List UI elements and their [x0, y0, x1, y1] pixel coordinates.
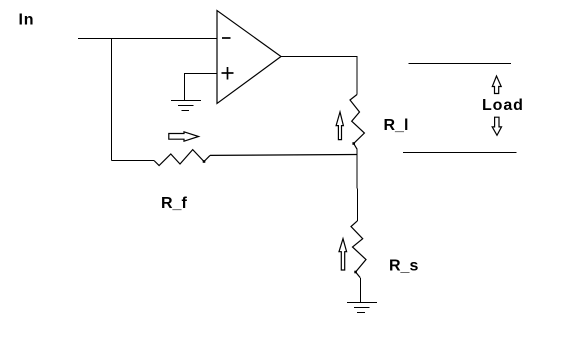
resistor R_f [154, 150, 210, 166]
ground (bottom) [347, 303, 377, 313]
load arrow up [492, 76, 501, 94]
op-amp U1 [217, 11, 281, 104]
ground (op-amp + input) [171, 101, 201, 111]
wire feedback left (R_f to tap) [112, 160, 155, 162]
load arrow down [492, 117, 501, 135]
svg-text:R_l: R_l [384, 117, 409, 134]
wire feedback tap (vertical from input wire) [111, 39, 113, 161]
wire feedback (node to R_f) [210, 154, 357, 157]
junction dot at R_l bottom [352, 142, 355, 145]
load bottom terminal [403, 152, 517, 154]
svg-text:Load: Load [482, 97, 524, 114]
resistor R_l [350, 95, 364, 150]
current arrow (R_s, up) [339, 239, 347, 270]
svg-text:R_f: R_f [161, 195, 187, 212]
wire non-inverting input to ground [185, 74, 218, 101]
junction dot at R_s bottom [354, 271, 357, 274]
svg-text:R_s: R_s [389, 258, 418, 275]
wire output [281, 57, 357, 95]
load top terminal [409, 63, 512, 65]
junction dot at R_f valley [203, 160, 206, 163]
op-amp non-inverting pin (+) [222, 67, 234, 80]
svg-text:In: In [19, 12, 35, 29]
current arrow (R_l, up) [336, 112, 343, 140]
op-amp inverting pin (-) [222, 37, 231, 39]
current arrow (R_f, right) [169, 132, 199, 141]
wire node column (R_l bottom to R_s top) [356, 149, 358, 221]
resistor R_s [351, 221, 366, 278]
wire R_s to ground [359, 278, 361, 303]
wire input (In to inverting input) [78, 38, 217, 40]
